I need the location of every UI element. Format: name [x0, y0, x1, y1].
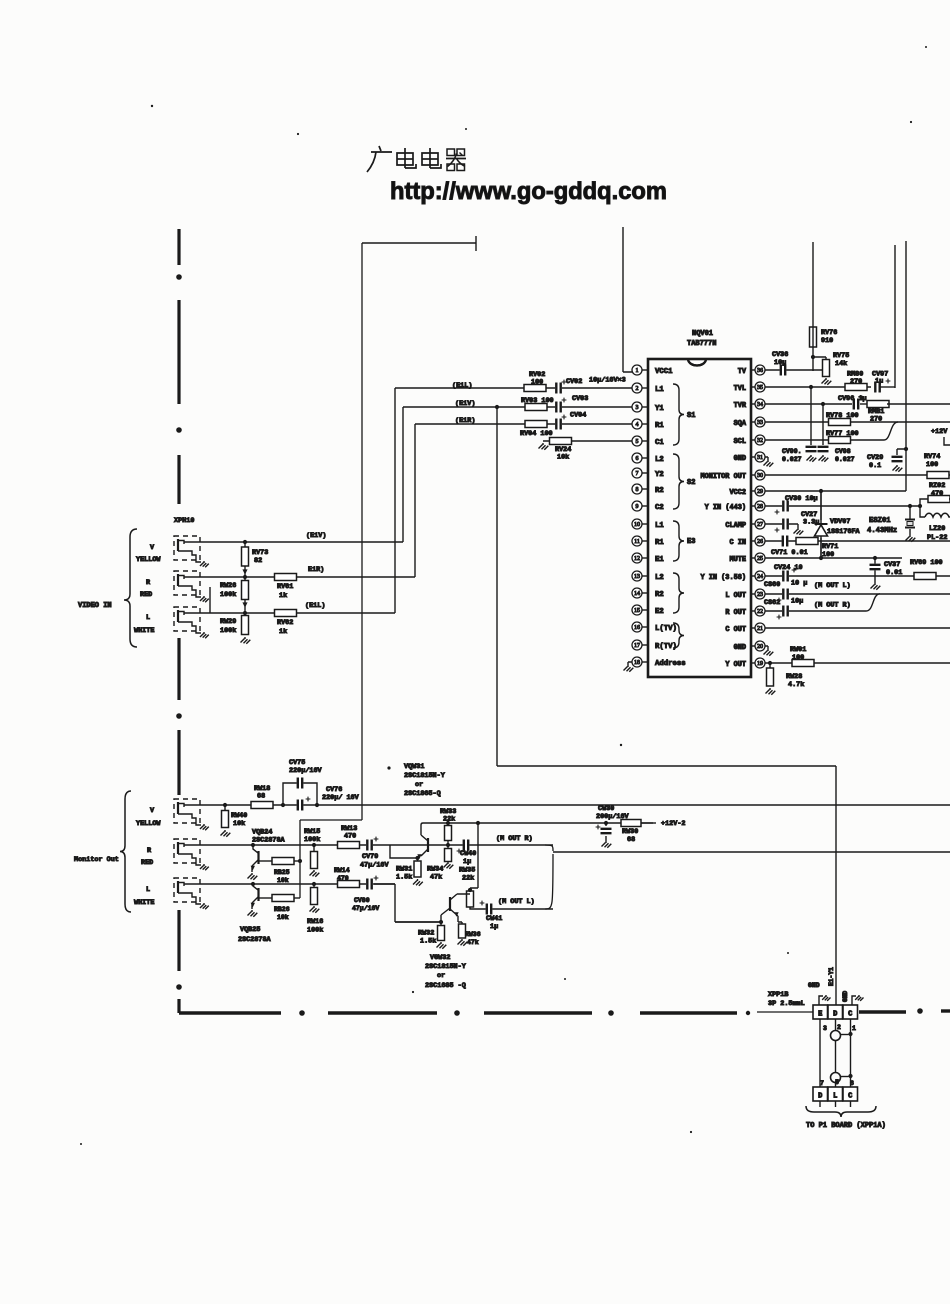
svg-text:34: 34: [757, 402, 763, 408]
svg-text:+12V: +12V: [931, 428, 948, 436]
svg-text:RED: RED: [141, 859, 153, 867]
svg-text:RV03 100: RV03 100: [521, 397, 554, 405]
svg-text:0.027: 0.027: [835, 456, 855, 463]
svg-text:RV71: RV71: [822, 543, 838, 551]
svg-text:10μ: 10μ: [774, 359, 786, 367]
svg-text:L2: L2: [655, 456, 664, 464]
svg-text:L: L: [146, 886, 150, 894]
svg-text:(M OUT R): (M OUT R): [814, 602, 851, 610]
svg-text:Y OUT: Y OUT: [725, 661, 746, 669]
svg-text:RED: RED: [140, 591, 152, 599]
svg-text:GND: GND: [808, 982, 820, 989]
svg-text:RW26: RW26: [220, 582, 236, 590]
svg-text:S2: S2: [687, 479, 695, 487]
svg-text:D: D: [818, 1093, 822, 1101]
svg-text:RW29: RW29: [220, 618, 236, 626]
svg-text:R(TV): R(TV): [655, 643, 677, 651]
svg-text:CS60: CS60: [764, 581, 780, 589]
svg-text:22k: 22k: [462, 875, 474, 883]
svg-text:82: 82: [254, 557, 262, 565]
svg-text:Address: Address: [655, 660, 686, 668]
svg-text:47k: 47k: [467, 939, 479, 946]
svg-text:SQA: SQA: [734, 420, 747, 428]
svg-text:6: 6: [850, 1080, 854, 1087]
svg-text:GND: GND: [734, 455, 746, 463]
svg-text:2SC1865-Q: 2SC1865-Q: [404, 790, 441, 798]
svg-text:470: 470: [931, 490, 943, 498]
svg-text:C2: C2: [655, 504, 664, 512]
svg-text:XPP1B: XPP1B: [768, 991, 788, 999]
svg-text:3P 2.5mmL: 3P 2.5mmL: [768, 1000, 805, 1008]
svg-text:(E1V): (E1V): [455, 400, 475, 408]
svg-text:10k: 10k: [277, 914, 289, 921]
svg-text:CV75: CV75: [289, 759, 305, 767]
svg-text:CW41: CW41: [486, 915, 502, 923]
svg-text:RV77 100: RV77 100: [826, 430, 859, 438]
svg-text:25: 25: [757, 556, 763, 562]
svg-text:1μ: 1μ: [463, 858, 471, 866]
svg-text:http://www.go-gddq.com: http://www.go-gddq.com: [390, 178, 667, 205]
svg-text:or: or: [415, 781, 423, 789]
svg-text:GND: GND: [734, 644, 746, 652]
svg-text:VIDEO IN: VIDEO IN: [78, 602, 112, 610]
svg-text:TVL: TVL: [734, 385, 746, 393]
svg-text:CV30 10μ: CV30 10μ: [785, 495, 818, 503]
svg-text:RW40: RW40: [231, 812, 247, 820]
svg-text:CV96 1μ: CV96 1μ: [838, 395, 867, 403]
svg-text:2: 2: [837, 1024, 841, 1031]
svg-text:(M OUT L): (M OUT L): [814, 582, 851, 590]
svg-text:1μ: 1μ: [490, 923, 498, 931]
svg-text:270: 270: [850, 378, 862, 386]
svg-text:CW40: CW40: [460, 850, 476, 858]
svg-text:(E1L): (E1L): [452, 382, 472, 390]
svg-text:6: 6: [636, 456, 639, 462]
svg-text:VGW32: VGW32: [430, 954, 450, 962]
svg-text:GND: GND: [842, 991, 849, 1002]
svg-text:S1: S1: [687, 412, 695, 420]
svg-text:32: 32: [757, 438, 763, 444]
svg-text:RW01: RW01: [790, 646, 806, 654]
svg-text:100k: 100k: [307, 927, 323, 935]
svg-text:CV24 10: CV24 10: [774, 564, 803, 572]
svg-text:CV79: CV79: [362, 853, 378, 861]
svg-text:CV36: CV36: [772, 351, 788, 359]
svg-text:E2: E2: [655, 608, 664, 616]
svg-text:RW15: RW15: [304, 828, 320, 836]
svg-text:E1: E1: [655, 556, 664, 564]
svg-text:RV78 100: RV78 100: [826, 412, 859, 420]
svg-text:Y IN (3.58): Y IN (3.58): [701, 574, 747, 582]
svg-text:47μ/16V: 47μ/16V: [352, 905, 379, 912]
svg-text:220μ/ 16V: 220μ/ 16V: [322, 794, 360, 802]
svg-text:3: 3: [823, 1025, 827, 1032]
svg-text:CV02: CV02: [566, 378, 582, 386]
svg-text:MONITOR OUT: MONITOR OUT: [701, 473, 747, 481]
svg-text:RV61: RV61: [277, 583, 293, 591]
svg-text:CW30: CW30: [598, 805, 614, 813]
svg-text:1μ: 1μ: [875, 378, 883, 386]
svg-text:23: 23: [757, 592, 763, 598]
svg-text:SCL: SCL: [734, 438, 746, 446]
svg-text:10k: 10k: [557, 454, 569, 462]
svg-text:10μ/16V×3: 10μ/16V×3: [589, 377, 626, 385]
svg-text:RV76: RV76: [821, 329, 837, 337]
svg-text:5: 5: [835, 1079, 839, 1086]
svg-text:RW14: RW14: [334, 867, 350, 874]
svg-text:1SS176FA: 1SS176FA: [827, 528, 861, 536]
svg-text:0.027: 0.027: [782, 456, 802, 463]
svg-text:RW32: RW32: [418, 930, 434, 938]
svg-text:0.1: 0.1: [869, 462, 881, 470]
svg-text:3.3μ: 3.3μ: [803, 519, 819, 527]
svg-text:RW35: RW35: [459, 867, 475, 875]
svg-text:C IN: C IN: [729, 539, 746, 547]
svg-text:C OUT: C OUT: [725, 626, 746, 634]
svg-text:Monitor Out: Monitor Out: [74, 856, 119, 864]
svg-text:CV80: CV80: [354, 897, 370, 904]
svg-text:RV04 100: RV04 100: [520, 430, 553, 438]
svg-text:+12V-2: +12V-2: [661, 820, 685, 828]
svg-text:R1: R1: [655, 539, 664, 547]
svg-text:2: 2: [636, 386, 639, 392]
svg-text:RW36: RW36: [465, 931, 481, 938]
svg-text:RB25: RB25: [274, 869, 290, 876]
svg-text:3: 3: [636, 405, 639, 411]
svg-text:VQB24: VQB24: [252, 829, 272, 837]
svg-text:(M OUT L): (M OUT L): [498, 898, 535, 906]
svg-text:E1-Y1: E1-Y1: [828, 967, 835, 986]
svg-text:CV37: CV37: [884, 561, 900, 569]
svg-text:33: 33: [757, 420, 763, 426]
svg-text:15: 15: [634, 608, 640, 614]
svg-text:1k: 1k: [279, 592, 287, 600]
svg-text:1.5k: 1.5k: [420, 938, 436, 946]
svg-text:100: 100: [531, 379, 543, 387]
svg-text:(M OUT R): (M OUT R): [496, 835, 533, 843]
svg-text:CV98: CV98: [835, 448, 851, 455]
svg-text:4.43MHz: 4.43MHz: [867, 527, 897, 535]
svg-text:RW28: RW28: [786, 673, 802, 681]
svg-text:RW16: RW16: [307, 918, 323, 926]
svg-text:LZ20: LZ20: [929, 525, 945, 533]
svg-text:CV04: CV04: [570, 412, 586, 420]
svg-text:RW30: RW30: [622, 828, 638, 836]
svg-text:L(TV): L(TV): [655, 625, 677, 633]
svg-text:100k: 100k: [220, 627, 236, 635]
svg-text:1: 1: [636, 368, 639, 374]
svg-text:12: 12: [634, 556, 640, 562]
svg-text:L2: L2: [655, 574, 664, 582]
svg-text:CV71 0.01: CV71 0.01: [771, 549, 808, 557]
svg-text:7: 7: [820, 1080, 824, 1087]
svg-text:Y2: Y2: [655, 471, 664, 479]
svg-text:10: 10: [634, 522, 640, 528]
svg-text:R2: R2: [655, 487, 664, 495]
svg-text:100k: 100k: [304, 836, 320, 844]
svg-text:VCC1: VCC1: [655, 368, 673, 376]
svg-text:29: 29: [757, 489, 763, 495]
svg-text:9: 9: [636, 504, 639, 510]
svg-text:CV76: CV76: [326, 786, 342, 794]
svg-text:L OUT: L OUT: [725, 592, 746, 600]
svg-text:100: 100: [926, 461, 938, 469]
svg-text:RW34: RW34: [427, 866, 443, 874]
svg-text:36: 36: [757, 368, 763, 374]
svg-text:VQW31: VQW31: [404, 763, 424, 771]
svg-text:28: 28: [757, 504, 763, 510]
svg-text:1.5k: 1.5k: [396, 874, 412, 882]
svg-text:MUTE: MUTE: [729, 556, 746, 564]
svg-text:68: 68: [257, 793, 265, 801]
svg-text:RB26: RB26: [274, 906, 290, 913]
svg-text:R1: R1: [655, 422, 664, 430]
svg-text:C: C: [848, 1011, 852, 1019]
svg-text:E1R): E1R): [308, 566, 324, 574]
svg-text:14: 14: [634, 591, 640, 597]
svg-text:VQB25: VQB25: [240, 926, 260, 934]
svg-text:TAB777N: TAB777N: [687, 340, 716, 348]
svg-text:C: C: [848, 1093, 852, 1101]
svg-text:47k: 47k: [430, 874, 442, 882]
svg-text:17: 17: [634, 643, 640, 649]
svg-text:YELLOW: YELLOW: [136, 820, 161, 828]
svg-text:7: 7: [636, 471, 639, 477]
svg-text:WHITE: WHITE: [134, 627, 154, 635]
svg-text:2SC1815N-Y: 2SC1815N-Y: [404, 772, 446, 780]
svg-text:14k: 14k: [835, 360, 847, 368]
svg-text:470: 470: [344, 833, 356, 841]
svg-text:YELLOW: YELLOW: [136, 556, 161, 564]
svg-text:470: 470: [337, 875, 349, 882]
svg-text:E3: E3: [687, 538, 695, 546]
svg-text:4: 4: [636, 422, 639, 428]
svg-text:R OUT: R OUT: [725, 609, 746, 617]
svg-text:20: 20: [757, 644, 763, 650]
svg-text:NQV01: NQV01: [692, 330, 713, 338]
svg-text:8: 8: [636, 487, 639, 493]
svg-text:L1: L1: [655, 522, 664, 530]
svg-text:13: 13: [634, 574, 640, 580]
svg-text:RV75: RV75: [833, 352, 849, 360]
svg-text:TO P1 BOARD (XPP1A): TO P1 BOARD (XPP1A): [806, 1122, 886, 1130]
svg-text:(E1R): (E1R): [455, 417, 475, 425]
svg-text:CS62: CS62: [764, 599, 780, 607]
svg-text:2SC1685 -Q: 2SC1685 -Q: [425, 982, 466, 990]
svg-text:10k: 10k: [277, 877, 289, 884]
svg-text:or: or: [437, 972, 445, 980]
svg-text:220μ/16V: 220μ/16V: [289, 767, 323, 775]
svg-text:1: 1: [852, 1025, 856, 1032]
svg-text:27: 27: [757, 522, 763, 528]
svg-text:11: 11: [634, 539, 640, 545]
svg-text:Y IN (443): Y IN (443): [705, 504, 746, 512]
svg-text:VDV07: VDV07: [830, 518, 850, 526]
svg-text:10 μ: 10 μ: [791, 580, 807, 588]
svg-text:E: E: [818, 1011, 822, 1019]
svg-text:CLAMP: CLAMP: [725, 522, 746, 530]
svg-text:10k: 10k: [233, 820, 245, 828]
svg-text:ESZ01: ESZ01: [869, 517, 891, 525]
svg-text:RV74: RV74: [924, 453, 940, 461]
svg-text:18: 18: [634, 660, 640, 666]
svg-text:22: 22: [757, 609, 763, 615]
svg-text:RZ02: RZ02: [929, 482, 945, 490]
svg-text:RV62: RV62: [277, 619, 293, 627]
svg-text:2SC1815N-Y: 2SC1815N-Y: [425, 963, 467, 971]
svg-text:68: 68: [627, 836, 635, 844]
svg-text:RV73: RV73: [252, 549, 268, 557]
svg-text:1k: 1k: [279, 628, 287, 636]
svg-text:5: 5: [636, 439, 639, 445]
svg-text:22k: 22k: [443, 816, 455, 824]
svg-text:D: D: [833, 1011, 837, 1019]
svg-text:Y1: Y1: [655, 405, 664, 413]
svg-text:C1: C1: [655, 439, 664, 447]
svg-text:26: 26: [757, 539, 763, 545]
svg-text:VCC2: VCC2: [729, 489, 746, 497]
svg-text:10μ: 10μ: [791, 598, 803, 606]
svg-text:35: 35: [757, 385, 763, 391]
svg-text:30: 30: [757, 473, 763, 479]
svg-text:RV69 100: RV69 100: [910, 559, 943, 567]
svg-text:CV03: CV03: [572, 395, 588, 403]
svg-text:L1: L1: [655, 386, 664, 394]
svg-text:2SC2878A: 2SC2878A: [238, 936, 272, 944]
svg-text:100k: 100k: [220, 591, 236, 599]
svg-text:4.7k: 4.7k: [788, 681, 804, 689]
svg-text:XPH10: XPH10: [174, 517, 194, 525]
svg-text:16: 16: [634, 625, 640, 631]
svg-text:CV29: CV29: [867, 454, 883, 462]
svg-text:L: L: [833, 1093, 837, 1101]
svg-text:CV99.: CV99.: [782, 448, 802, 455]
svg-text:910: 910: [821, 337, 833, 345]
svg-text:19: 19: [757, 661, 763, 667]
svg-text:100: 100: [792, 654, 804, 662]
svg-text:(E1L): (E1L): [305, 602, 325, 610]
svg-text:31: 31: [757, 455, 763, 461]
svg-text:2SC2878A: 2SC2878A: [252, 837, 286, 845]
svg-text:(E1V): (E1V): [306, 532, 326, 540]
svg-text:47μ/16V: 47μ/16V: [360, 862, 389, 870]
svg-text:L: L: [146, 614, 150, 622]
svg-text:WHITE: WHITE: [134, 899, 154, 907]
svg-text:TVR: TVR: [734, 402, 747, 410]
svg-text:RW31: RW31: [396, 866, 412, 874]
svg-text:21: 21: [757, 626, 763, 632]
svg-text:TV: TV: [738, 368, 747, 376]
svg-text:R2: R2: [655, 591, 664, 599]
svg-text:24: 24: [757, 574, 763, 580]
